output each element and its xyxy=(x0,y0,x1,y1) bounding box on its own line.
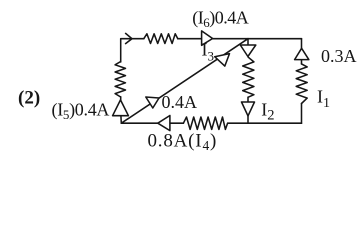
svg-text:(I5)0.4A: (I5)0.4A xyxy=(52,99,110,122)
wire bottom right segment xyxy=(228,122,302,124)
svg-text:(I6)0.4A: (I6)0.4A xyxy=(192,8,248,31)
wire top side xyxy=(121,38,144,40)
arrow I3 on diagonal branch (open triangle pointing left) xyxy=(215,54,230,67)
svg-text:I3: I3 xyxy=(202,40,215,64)
resistor bottom (horizontal) xyxy=(183,117,227,129)
wire right stub below arrow xyxy=(301,60,303,64)
wire right side xyxy=(301,39,303,49)
current direction chevron on top-left wire xyxy=(126,33,132,43)
wire top right (through node to right corner) xyxy=(213,38,302,40)
wire bottom left segment xyxy=(121,122,158,124)
wire bottom between arrow and resistor xyxy=(170,122,184,124)
arrow 0.4A on diagonal branch (open triangle pointing down-left) xyxy=(146,97,159,108)
svg-text:I1: I1 xyxy=(317,87,330,112)
wire left corner stub xyxy=(120,116,122,124)
arrow on middle branch top (open triangle pointing down) xyxy=(240,45,256,57)
arrow 0.3A on right branch (open triangle pointing up) xyxy=(295,48,309,59)
resistor right (vertical) xyxy=(296,64,307,104)
wire middle branch top stub xyxy=(247,39,249,45)
wire right lower xyxy=(301,104,303,124)
wire left side upper xyxy=(120,39,122,62)
arrow I6 on top wire (open triangle pointing right) xyxy=(202,31,213,45)
svg-text:(2): (2) xyxy=(18,87,40,108)
wire left lower stub xyxy=(120,97,122,101)
resistor middle (vertical) xyxy=(243,57,254,97)
arrow I2 on middle branch bottom (open triangle pointing down) xyxy=(242,102,255,116)
wire middle bottom stub xyxy=(247,116,249,123)
arrow I4 on bottom wire (open triangle pointing left) xyxy=(158,116,170,131)
svg-text:I2: I2 xyxy=(261,99,274,123)
svg-text:0.3A: 0.3A xyxy=(321,46,357,66)
svg-text:0.8A(I4): 0.8A(I4) xyxy=(148,131,218,154)
arrow I5 on left branch (open triangle pointing up) xyxy=(113,100,129,116)
wire diagonal branch xyxy=(121,39,248,124)
resistor left (vertical) xyxy=(115,62,125,98)
svg-text:0.4A: 0.4A xyxy=(162,92,198,112)
wire top middle xyxy=(178,38,202,40)
wire middle lower stub xyxy=(247,97,249,102)
resistor top (horizontal) xyxy=(144,34,178,44)
